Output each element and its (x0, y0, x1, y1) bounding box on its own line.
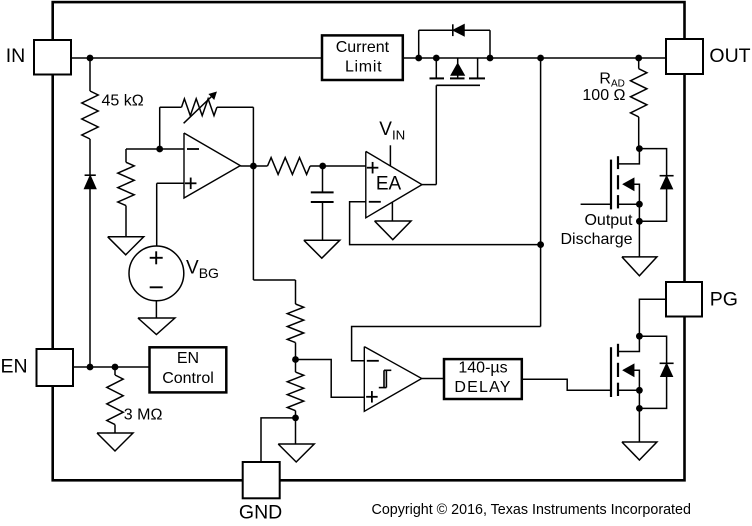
svg-text:140-µs: 140-µs (458, 360, 507, 377)
svg-text:Copyright © 2016, Texas Instru: Copyright © 2016, Texas Instruments Inco… (372, 502, 691, 518)
svg-text:3 MΩ: 3 MΩ (124, 406, 163, 423)
svg-text:Output: Output (584, 212, 633, 229)
wire OUT feedback vertical (540, 58, 542, 327)
ground under 3M resistor (97, 433, 133, 451)
resistor A1 input divider (118, 162, 134, 205)
node EN junction 2 (112, 364, 119, 371)
wire diode loop right leg (489, 30, 491, 58)
wire FET source to bottom node (638, 204, 640, 221)
wire Q3 to ground (638, 408, 640, 442)
transistor Q1 body stub (457, 75, 459, 78)
svg-text:EN: EN (0, 356, 27, 378)
resistor 3 M&#937; (107, 375, 123, 425)
VBG plus sign (150, 257, 163, 259)
ground under Q3 (622, 442, 657, 460)
node FET bottom (636, 218, 643, 225)
wire delay output to PG gate (522, 379, 611, 390)
svg-text:Limit: Limit (345, 58, 382, 75)
wire FET source to bottom node (638, 390, 640, 408)
node IN junction (87, 55, 94, 62)
wire A1 output to series resistor (240, 165, 267, 167)
wire IN junction down to 45k resistor (89, 58, 91, 91)
wire feedback down to A1 output (252, 107, 254, 166)
EA ground pin (391, 202, 393, 221)
wire A1 output down to divider (252, 166, 254, 280)
svg-text:IN: IN (6, 45, 26, 67)
wire resistor to ground (125, 206, 127, 237)
svg-text:Discharge: Discharge (560, 231, 632, 248)
node FET source (636, 387, 643, 394)
transistor Q1 drain plate (469, 77, 485, 79)
EA VIN supply pin (389, 145, 391, 166)
node FET bottom (636, 405, 643, 412)
body diode arrow (points up) (661, 364, 672, 376)
svg-text:Control: Control (162, 370, 214, 387)
pin IN box (34, 40, 71, 75)
block EN Control (150, 347, 227, 392)
node pass FET drain (487, 55, 494, 62)
wire EA output (422, 184, 436, 186)
wire RAD to discharge FET (638, 117, 640, 149)
ground under Q2 (622, 257, 657, 276)
outer border of device (53, 2, 685, 480)
FET drain stub (618, 149, 640, 164)
body diode arrow (points up) (661, 177, 672, 189)
comparator plus sign (366, 396, 378, 398)
wire comparator output to delay (422, 378, 444, 380)
wire A1 non-inverting input (157, 182, 184, 184)
wire feedback up (159, 107, 161, 149)
resistor variable feedback zigzag (182, 99, 217, 116)
voltage source VBG circle (129, 246, 184, 301)
resistor divider R2 (287, 372, 303, 411)
wire diode loop top right (464, 29, 490, 31)
transistor Q1 body diode arrow (451, 64, 464, 75)
VBG minus sign (150, 286, 163, 288)
op-amp A1 plus sign (185, 182, 197, 184)
node A1 output (250, 163, 257, 170)
FET channel bar segments (617, 156, 619, 169)
op-amp EA triangle (366, 151, 422, 217)
transistor Q1 pass PMOS source stub (435, 58, 437, 78)
transistor Q1 body plate (450, 77, 465, 79)
wire diode loop left leg (418, 30, 420, 58)
svg-text:OUT: OUT (709, 45, 750, 67)
ground under divider (278, 444, 314, 462)
FET body wire (634, 370, 640, 390)
wire IN to Current Limit (71, 57, 322, 59)
wire midpoint to R2 (295, 360, 297, 373)
ground under VBG (138, 318, 175, 335)
transistor Q1 body connection (457, 58, 459, 64)
wire divider bottom to GND pin (261, 418, 296, 463)
wire midpoint to comparator + input (296, 360, 365, 398)
FET source plate wire (618, 203, 639, 205)
block Current Limit (322, 35, 403, 80)
EA plus sign (367, 167, 379, 169)
wire feedback top right (217, 106, 254, 108)
svg-text:45 kΩ: 45 kΩ (102, 93, 144, 110)
wire RC node to EA + input (323, 165, 366, 167)
capacitor C1 bottom plate (311, 201, 334, 203)
node RC junction (319, 163, 326, 170)
FET body diode arrow (points left) (624, 179, 634, 190)
wire EN to EN Control (73, 366, 150, 368)
node pass FET source (433, 55, 440, 62)
body diode cathode bar (660, 362, 674, 364)
wire EA output to pass FET gate (435, 85, 437, 184)
node A1 inverting input junction (156, 146, 163, 153)
svg-text:DELAY: DELAY (454, 379, 511, 396)
svg-text:GND: GND (239, 501, 282, 523)
FET gate bar (610, 160, 612, 210)
wire divider top horizontal (253, 279, 295, 281)
svg-text:EA: EA (376, 174, 402, 195)
node FET drain (636, 145, 643, 152)
diode D1 arrow (pointing up) (85, 176, 96, 189)
diode D1 cathode bar (85, 174, 96, 176)
FET channel bar segments (617, 344, 619, 357)
resistor divider R1 (287, 304, 303, 343)
Q2 gate stub (581, 203, 611, 205)
ground under A1 input resistor (108, 237, 144, 255)
node divider midpoint (292, 356, 299, 363)
body diode cathode bar (660, 175, 674, 177)
wire OUT rail down to RAD (638, 58, 640, 69)
wire RC node down to capacitor (322, 166, 324, 192)
svg-text:PG: PG (710, 288, 738, 310)
node pass FET loop left (415, 55, 422, 62)
comparator minus sign (367, 360, 379, 362)
FET body wire (634, 184, 640, 204)
transistor Q1 gate bar (436, 84, 480, 86)
node feedback rail junction (537, 241, 544, 248)
wire resistor to RC node (310, 165, 323, 167)
wire 45k to diode D1 (89, 139, 91, 175)
wire A1 inverting input (126, 148, 184, 150)
node divider bottom (292, 415, 299, 422)
wire diode D1 down to EN line (89, 189, 91, 368)
wire feedback rail to comparator (352, 327, 541, 361)
diode D2 reverse protection (cathode bar) (452, 24, 454, 36)
wire R2 to bottom node (295, 411, 297, 418)
FET gate bar (610, 347, 612, 397)
EA minus sign (369, 201, 381, 203)
body diode branch (639, 336, 666, 408)
variable resistor arrow (184, 96, 213, 124)
wire Current Limit to OUT (403, 57, 666, 59)
wire A1 - input to resistor (125, 149, 127, 162)
FET source plate wire (618, 389, 639, 391)
transistor Q1 source plate (430, 77, 445, 79)
wire PG box to Q3 drain (639, 299, 666, 336)
resistor 45 k&#937; (82, 91, 98, 139)
wire divider top vertical (295, 280, 297, 304)
pin PG box (666, 282, 702, 317)
transistor Q1 drain stub (477, 58, 479, 78)
op-amp A1 minus sign (187, 148, 199, 150)
comparator hysteresis symbol (379, 387, 387, 389)
pin GND box (243, 462, 280, 498)
wire divider bottom to ground symbol (295, 418, 297, 444)
wire EN junction down to 3M resistor (114, 367, 116, 375)
wire feedback top left (160, 106, 182, 108)
resistor series RC lowpass (268, 158, 311, 175)
wire R1 to midpoint (295, 343, 297, 360)
block 140-us DELAY (444, 359, 522, 399)
svg-text:Current: Current (336, 39, 390, 56)
svg-text:100 Ω: 100 Ω (582, 87, 625, 104)
node FET drain (636, 333, 643, 340)
node RAD tap on OUT rail (635, 55, 642, 62)
ground under EA (375, 221, 412, 240)
body diode branch (639, 149, 666, 222)
wire VBG to ground (155, 301, 157, 318)
op-amp A1 triangle (184, 133, 240, 198)
FET drain stub (618, 336, 640, 351)
wire capacitor to ground (322, 202, 324, 240)
node FET source (636, 201, 643, 208)
wire diode loop top left (419, 29, 453, 31)
wire A1 + input down to VBG (156, 183, 158, 246)
pin EN box (37, 349, 74, 386)
wire 3M to ground (114, 425, 116, 433)
ground under capacitor C1 (304, 240, 340, 258)
svg-text:EN: EN (177, 350, 199, 367)
pin OUT box (666, 39, 703, 74)
diode D2 arrow (454, 25, 464, 36)
comparator U2 triangle (364, 347, 421, 412)
FET body diode arrow (points left) (624, 365, 634, 376)
capacitor C1 top plate (311, 191, 334, 193)
wire Q2 to ground (638, 221, 640, 257)
node EN junction 1 (87, 364, 94, 371)
resistor RAD 100 ohm (631, 69, 647, 117)
node feedback tap on OUT rail (537, 55, 544, 62)
wire EA inverting input step (350, 202, 541, 245)
